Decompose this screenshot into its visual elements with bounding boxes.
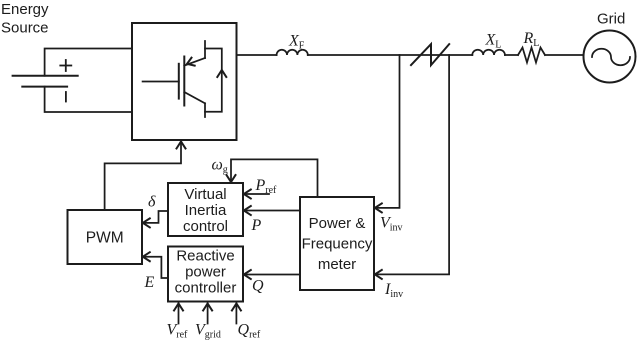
PWM block	[68, 210, 143, 264]
label Energy Source	[1, 1, 49, 37]
power and frequency meter block	[300, 197, 374, 290]
grid source G1	[584, 31, 636, 83]
inverter U1	[132, 23, 237, 140]
wire Iinv measurement	[375, 55, 449, 300]
svg-text:E: E	[144, 274, 155, 291]
inductor XL	[472, 32, 505, 56]
svg-text:Source: Source	[1, 20, 49, 37]
freewheeling path with arrow	[205, 49, 226, 112]
arrow Pref	[244, 177, 277, 199]
wire RL to grid	[545, 54, 584, 56]
svg-text:Pref: Pref	[255, 177, 278, 196]
line break symbol	[411, 44, 449, 65]
arrow P	[244, 206, 300, 234]
svg-text:ωg: ωg	[212, 157, 228, 176]
svg-text:power: power	[185, 264, 226, 281]
svg-text:XL: XL	[485, 32, 502, 51]
svg-text:controller: controller	[175, 280, 237, 297]
svg-text:Grid: Grid	[597, 11, 625, 28]
wire XL to RL	[505, 54, 518, 56]
svg-text:Iinv: Iinv	[384, 281, 403, 300]
svg-text:XF: XF	[288, 33, 305, 52]
svg-text:Reactive: Reactive	[176, 248, 234, 265]
svg-text:Inertia: Inertia	[185, 202, 227, 219]
inductor XF	[277, 33, 308, 56]
svg-text:meter: meter	[318, 256, 356, 273]
virtual inertia control block	[168, 183, 243, 236]
arrow Q	[244, 270, 300, 295]
battery B1	[13, 60, 78, 102]
svg-text:Virtual: Virtual	[184, 186, 226, 203]
reactive power controller block	[168, 247, 243, 302]
wire battery bottom to inverter	[45, 87, 132, 112]
arrow Vref	[167, 304, 189, 341]
svg-text:RL: RL	[523, 30, 540, 49]
svg-text:Frequency: Frequency	[302, 236, 373, 253]
svg-text:control: control	[183, 218, 228, 235]
IGBT Q1	[143, 41, 205, 117]
wire battery top to inverter	[45, 49, 132, 76]
svg-text:P: P	[251, 217, 262, 234]
wire PWM to inverter	[105, 142, 186, 211]
svg-text:δ: δ	[148, 194, 156, 211]
svg-text:Qref: Qref	[238, 322, 261, 341]
svg-text:PWM: PWM	[86, 230, 124, 247]
arrow delta	[143, 194, 168, 228]
arrow Qref	[232, 304, 261, 341]
svg-text:Vinv: Vinv	[380, 215, 403, 234]
svg-text:Vref: Vref	[167, 322, 189, 341]
wire inverter output	[237, 54, 277, 56]
wire XF to XL	[308, 54, 473, 56]
svg-text:Q: Q	[252, 278, 264, 295]
arrow E	[143, 252, 168, 291]
arrow Vgrid	[195, 304, 221, 341]
resistor RL	[518, 30, 545, 63]
svg-text:Power &: Power &	[309, 215, 366, 232]
wire omega g	[212, 157, 318, 198]
wire Vinv measurement	[375, 55, 403, 234]
svg-text:Energy: Energy	[1, 1, 49, 18]
